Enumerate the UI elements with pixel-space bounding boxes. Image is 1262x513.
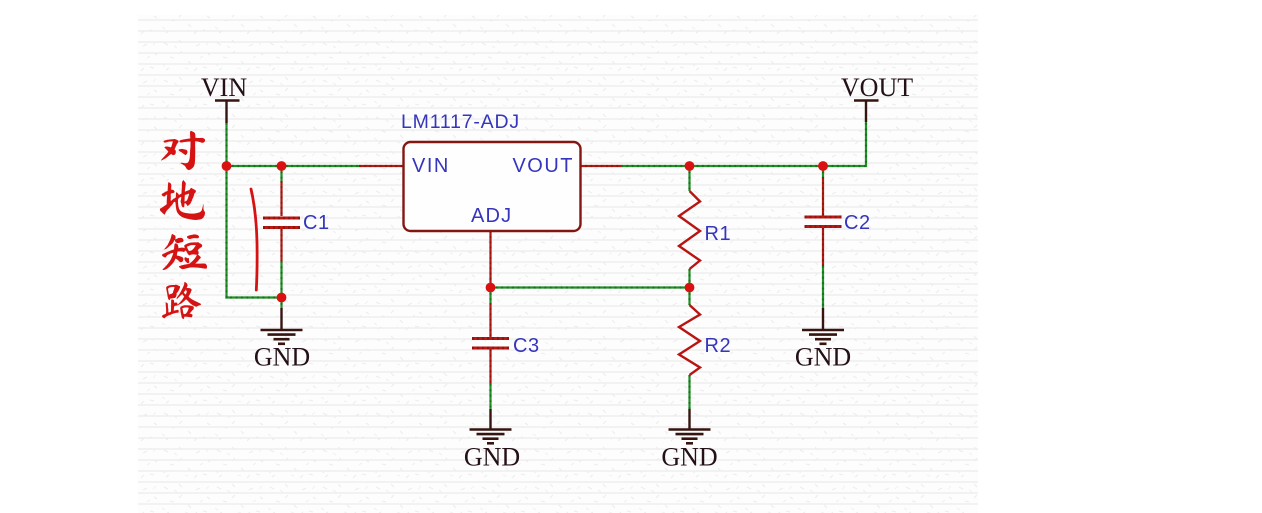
svg-text:GND: GND bbox=[254, 343, 310, 372]
svg-text:GND: GND bbox=[795, 343, 851, 372]
svg-text:VOUT: VOUT bbox=[841, 73, 913, 102]
svg-text:R2: R2 bbox=[705, 335, 732, 357]
svg-text:GND: GND bbox=[661, 443, 717, 472]
svg-text:GND: GND bbox=[464, 443, 520, 472]
svg-text:R1: R1 bbox=[705, 223, 732, 245]
svg-text:ADJ: ADJ bbox=[471, 205, 512, 227]
svg-text:VIN: VIN bbox=[201, 73, 247, 102]
svg-text:C3: C3 bbox=[513, 335, 540, 357]
svg-text:VIN: VIN bbox=[412, 155, 450, 177]
svg-text:C1: C1 bbox=[303, 212, 330, 234]
svg-text:VOUT: VOUT bbox=[512, 155, 574, 177]
svg-text:C2: C2 bbox=[844, 212, 871, 234]
svg-text:LM1117-ADJ: LM1117-ADJ bbox=[401, 111, 520, 133]
